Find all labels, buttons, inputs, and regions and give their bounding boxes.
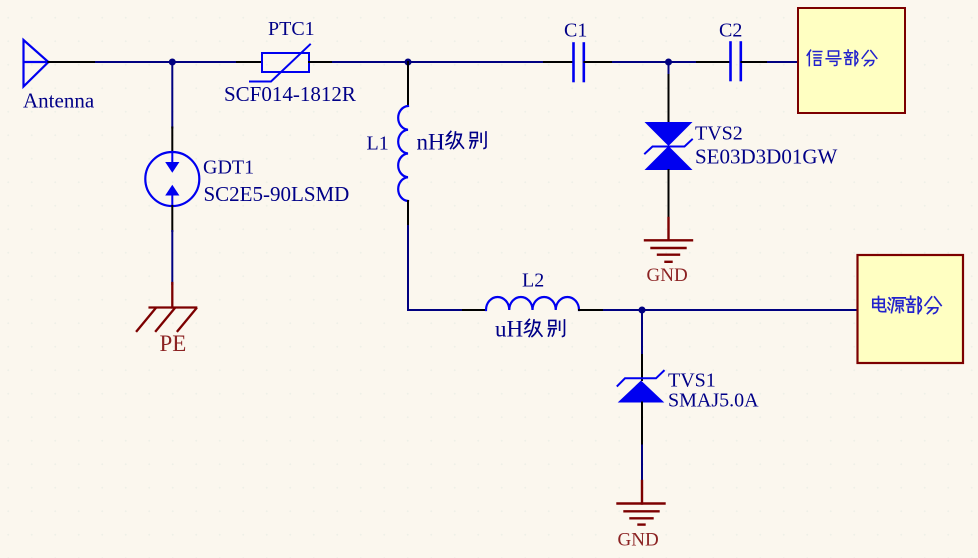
L1 pin 2 bbox=[407, 201, 409, 226]
svg-text:TVS1: TVS1 bbox=[668, 369, 716, 391]
C2 pin 1 bbox=[697, 61, 730, 63]
L2 pin 1 bbox=[463, 309, 486, 311]
inductor L2 bbox=[486, 297, 579, 310]
junction node A bbox=[169, 59, 176, 66]
svg-text:Antenna: Antenna bbox=[23, 88, 95, 112]
signal block label CJK fen bbox=[862, 51, 877, 66]
GND power symbol at TVS1 bbox=[618, 481, 665, 525]
svg-text:SCF014-1812R: SCF014-1812R bbox=[224, 82, 356, 106]
PTC thermistor PTC1 bbox=[250, 45, 310, 82]
bidirectional TVS diode TVS2 bbox=[645, 122, 693, 170]
L1 value label CJK ji bbox=[446, 131, 463, 148]
signal section block bbox=[798, 8, 905, 113]
inductor L1 bbox=[398, 106, 408, 201]
power section block bbox=[858, 255, 964, 363]
unidirectional TVS diode TVS1 bbox=[618, 371, 665, 403]
svg-text:SC2E5-90LSMD: SC2E5-90LSMD bbox=[204, 182, 350, 206]
capacitor C1 bbox=[574, 44, 584, 82]
svg-text:nH: nH bbox=[417, 130, 445, 155]
TVS2 pin 2 bbox=[668, 170, 670, 218]
power block label CJK dian bbox=[873, 296, 886, 311]
C2 pin 2 bbox=[742, 61, 769, 63]
L2 value label CJK ji bbox=[524, 319, 541, 336]
svg-text:GND: GND bbox=[647, 265, 688, 286]
wire C1 to node C bbox=[613, 61, 697, 63]
power block label CJK fen bbox=[925, 297, 941, 314]
wire node A down to GDT1 bbox=[171, 62, 173, 128]
junction node D bbox=[639, 307, 646, 314]
GDT1 pin 1 bbox=[171, 128, 173, 153]
svg-text:L2: L2 bbox=[522, 270, 544, 292]
wire node D down to TVS1 bbox=[641, 310, 643, 355]
L1 pin 1 bbox=[407, 62, 409, 106]
wire node C down to TVS2 bbox=[668, 62, 670, 75]
wire PTC1 to C1 bbox=[333, 61, 544, 63]
signal block label CJK hao bbox=[826, 51, 841, 66]
PE earth ground symbol bbox=[137, 283, 196, 331]
wire antenna to node A bbox=[96, 61, 237, 63]
TVS1 pin 2 bbox=[641, 403, 643, 446]
signal block label CJK bu bbox=[844, 50, 858, 66]
TVS1 pin 1 bbox=[641, 355, 643, 380]
wire TVS1 to GND bbox=[641, 446, 643, 483]
wire L2 to node D bbox=[604, 309, 642, 311]
antenna pin bbox=[48, 61, 96, 63]
antenna symbol bbox=[24, 40, 49, 87]
GND power symbol at TVS2 bbox=[645, 218, 692, 262]
svg-text:C2: C2 bbox=[719, 20, 742, 42]
svg-text:L1: L1 bbox=[367, 133, 389, 155]
junction node C bbox=[665, 59, 672, 66]
C1 pin 2 bbox=[585, 61, 614, 63]
svg-text:C1: C1 bbox=[564, 20, 587, 42]
junction node B bbox=[405, 59, 412, 66]
PTC1 pin 2 bbox=[309, 61, 333, 63]
gas discharge tube GDT1 bbox=[145, 152, 199, 206]
svg-text:GND: GND bbox=[618, 529, 659, 550]
svg-text:GDT1: GDT1 bbox=[203, 157, 254, 179]
svg-text:PTC1: PTC1 bbox=[268, 18, 315, 40]
capacitor C2 bbox=[731, 43, 741, 81]
power block label CJK yuan bbox=[888, 298, 905, 313]
svg-text:PE: PE bbox=[160, 331, 187, 356]
wire GDT1 to PE bbox=[171, 231, 173, 284]
signal block label CJK xin bbox=[807, 50, 822, 65]
wire C2 to signal block bbox=[768, 61, 798, 63]
svg-text:TVS2: TVS2 bbox=[695, 123, 743, 145]
L2 pin 2 bbox=[579, 309, 604, 311]
C1 pin 1 bbox=[544, 61, 573, 63]
svg-text:SE03D3D01GW: SE03D3D01GW bbox=[695, 145, 838, 169]
wire node D to power block bbox=[642, 309, 858, 311]
TVS2 pin 1 bbox=[668, 75, 670, 122]
GDT1 pin 2 bbox=[171, 206, 173, 231]
wire L1 to L2 elbow bbox=[408, 226, 463, 310]
PTC1 pin 1 bbox=[237, 61, 262, 63]
svg-text:SMAJ5.0A: SMAJ5.0A bbox=[668, 389, 759, 411]
svg-text:uH: uH bbox=[495, 317, 523, 342]
power block label CJK bu bbox=[906, 296, 921, 313]
L1 value label CJK bie bbox=[470, 132, 486, 148]
L2 value label CJK bie bbox=[548, 320, 564, 336]
